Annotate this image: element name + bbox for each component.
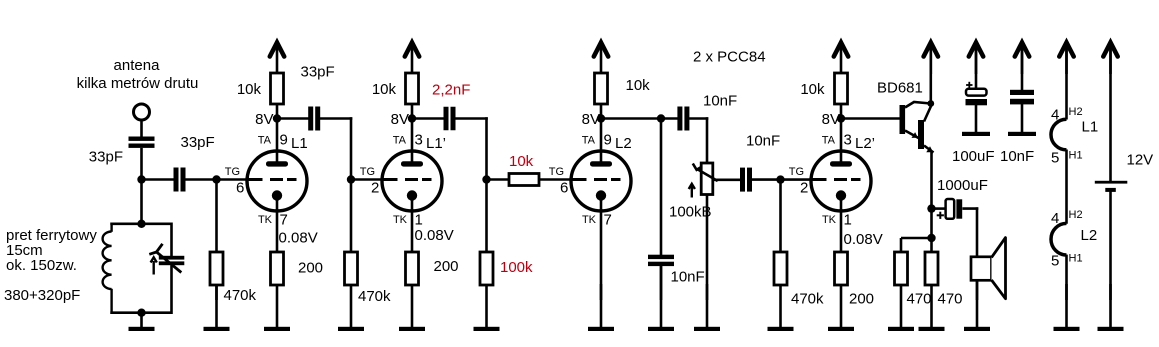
wire tank right branch lower	[170, 266, 173, 315]
wire cathode L1 down	[276, 209, 279, 253]
wire collector up	[929, 47, 932, 104]
wire corner down to junction	[485, 117, 488, 181]
node grid L2' junction	[776, 175, 784, 183]
triode L2p cathode	[836, 190, 846, 211]
wire arrow to 100uF	[975, 46, 978, 90]
svg-text:10k: 10k	[626, 77, 651, 94]
triode L2 anode lead	[600, 151, 603, 164]
wire tank bottom	[110, 311, 171, 314]
capacitor 1000uF (electrolytic)	[946, 199, 963, 219]
power arrow +12V stage 3	[594, 43, 608, 75]
svg-text:1000uF: 1000uF	[937, 177, 988, 194]
wire junction down to R 470k	[215, 180, 218, 254]
wire anode L1' to C 2,2nF	[412, 117, 444, 120]
svg-text:1: 1	[415, 212, 423, 229]
svg-text:TK: TK	[822, 214, 837, 226]
svg-text:100uF: 100uF	[952, 148, 995, 165]
ground (470k stage 2)	[338, 284, 364, 331]
svg-text:3: 3	[844, 132, 852, 149]
wire coupling cap to grid L1	[185, 178, 263, 181]
wire pot bottom to ground	[706, 194, 709, 301]
ground (470k stage 4)	[768, 284, 794, 331]
triode L1p cathode	[407, 190, 417, 211]
svg-text:L2: L2	[615, 135, 632, 152]
svg-text:5: 5	[1051, 253, 1059, 270]
ground (pot)	[694, 284, 720, 331]
wire emitter node to 1000uF	[932, 207, 947, 210]
svg-text:7: 7	[280, 212, 288, 229]
inductor L1 (winding)	[1051, 119, 1067, 150]
capacitor 2,2nF interstage 2-3	[444, 107, 456, 131]
ground (cathode L2)	[588, 284, 614, 331]
capacitor 100uF (electrolytic)	[966, 89, 988, 106]
capacitor 33pF grid coupling	[174, 168, 186, 192]
wire corner down to pot	[706, 117, 709, 164]
svg-text:470k: 470k	[358, 288, 391, 305]
svg-text:470: 470	[938, 291, 963, 308]
triode L1p anode plate	[401, 161, 423, 166]
wire junction to series 10k	[487, 178, 511, 181]
wire C to grid L2'	[752, 178, 827, 181]
ground (cathode stage 1)	[264, 284, 290, 331]
wire battery to ground	[1109, 192, 1112, 301]
resistor 470k (grid leak stage 1)	[210, 252, 223, 285]
svg-text:L1: L1	[291, 135, 308, 152]
svg-text:0.08V: 0.08V	[844, 231, 883, 248]
potentiometer small arrow	[689, 184, 695, 198]
power arrow +12V stage 2	[405, 43, 419, 75]
svg-text:200: 200	[434, 258, 459, 275]
wire 10nF to ground	[1021, 104, 1024, 132]
node: antenna/tank junction	[137, 175, 145, 183]
triode L2p anode lead	[840, 151, 843, 164]
triode L1 grid (dashed)	[247, 178, 297, 181]
battery 12V	[1095, 181, 1128, 192]
wire corner down to grid L1'	[350, 117, 353, 181]
svg-text:470k: 470k	[791, 291, 824, 308]
svg-text:100kB: 100kB	[669, 204, 712, 221]
power arrow +12V 100uF	[969, 43, 983, 75]
svg-text:TA: TA	[822, 135, 836, 147]
speaker	[971, 238, 1006, 299]
wire junction to right 470	[930, 238, 933, 253]
potentiometer 100kB body	[701, 163, 713, 195]
node grid L1' junction	[347, 175, 355, 183]
resistor 470 (left)	[895, 252, 908, 285]
wire junction down to 470k stage 2	[350, 180, 353, 254]
svg-text:10nF: 10nF	[671, 269, 705, 286]
wire arrow to battery	[1109, 46, 1112, 182]
wire 10k to anode L1'	[411, 103, 414, 164]
power arrow +12V stage 1	[270, 43, 284, 75]
ground (10nF shunt)	[648, 266, 674, 331]
label + (1000uF)	[937, 212, 944, 219]
svg-text:5: 5	[1051, 150, 1059, 167]
triode L2 cathode	[596, 190, 606, 211]
node 8V anode L1	[273, 114, 281, 122]
resistor 10k (anode stage 3)	[595, 73, 608, 104]
svg-text:10k: 10k	[372, 81, 397, 98]
wire junction down to 470k stage 4	[779, 180, 782, 253]
resistor 200 (cathode stage 2)	[406, 252, 419, 285]
capacitor 10nF (decoupling)	[1010, 90, 1034, 105]
wire C to corner	[320, 117, 352, 120]
wire node to C 10nF top	[661, 117, 678, 120]
svg-text:8V: 8V	[582, 111, 600, 128]
capacitor 33pF antenna series	[129, 137, 155, 148]
node: tank bottom junction	[137, 309, 145, 317]
svg-text:8V: 8V	[391, 111, 409, 128]
ground (speaker)	[964, 280, 990, 331]
svg-text:380+320pF: 380+320pF	[4, 287, 80, 304]
svg-text:0.08V: 0.08V	[415, 227, 454, 244]
node 8V anode L2	[597, 114, 605, 122]
wire arrow to coil L1	[1065, 46, 1068, 120]
wire 10k to anode L2'	[840, 103, 843, 164]
svg-text:3: 3	[415, 132, 423, 149]
svg-text:4: 4	[1051, 210, 1059, 227]
capacitor 10nF shunt	[648, 255, 674, 266]
power arrow +12V coil L1	[1059, 43, 1073, 75]
svg-text:10nF: 10nF	[703, 93, 737, 110]
svg-text:33pF: 33pF	[301, 64, 335, 81]
ground (tank)	[129, 313, 155, 331]
wire L1 to L2	[1065, 150, 1068, 224]
node 8V anode L2'	[837, 114, 845, 122]
svg-text:6: 6	[236, 180, 244, 197]
power arrow +12V 10nF	[1015, 43, 1029, 75]
ground (470 left)	[888, 284, 914, 331]
triode L1p grid (dashed)	[382, 178, 432, 181]
svg-text:470k: 470k	[224, 287, 257, 304]
svg-text:L1: L1	[1082, 119, 1099, 136]
svg-text:TK: TK	[258, 214, 273, 226]
svg-text:1: 1	[844, 212, 852, 229]
svg-text:470: 470	[907, 291, 932, 308]
node: grid L1 / 470k junction	[212, 175, 220, 183]
svg-text:L2: L2	[1081, 227, 1098, 244]
resistor 200 (cathode stage 4)	[835, 252, 848, 285]
wire pot wiper to C 10nF	[713, 179, 741, 182]
wire junction to left 470	[901, 238, 932, 253]
wire C1 to tank node	[140, 148, 143, 225]
wire arrow to 10nF	[1021, 46, 1024, 91]
ground (L2 coil)	[1054, 284, 1080, 331]
wire 10k to anode L1	[276, 103, 279, 164]
transistor BD681 darlington	[900, 102, 934, 153]
wire shunt node down to 10nF	[660, 119, 663, 256]
resistor 10k (anode stage 1)	[271, 73, 284, 104]
wire 10k to grid L2	[538, 178, 587, 181]
wire 100uF to ground	[975, 105, 978, 132]
wire C to corner above pot	[689, 117, 708, 120]
svg-text:TG: TG	[549, 166, 564, 178]
svg-text:TG: TG	[360, 166, 375, 178]
svg-text:TG: TG	[789, 166, 804, 178]
wire 10k to anode L2	[600, 103, 603, 164]
svg-text:TA: TA	[393, 135, 407, 147]
triode L1 anode plate	[266, 161, 288, 166]
svg-text:ok. 150zw.: ok. 150zw.	[6, 257, 77, 274]
svg-text:0.08V: 0.08V	[279, 230, 318, 247]
triode L2 envelope	[571, 151, 631, 211]
svg-text:33pF: 33pF	[89, 149, 123, 166]
svg-text:100k: 100k	[500, 259, 533, 276]
potentiometer wiper arrow	[693, 164, 718, 182]
svg-text:TG: TG	[225, 166, 240, 178]
wire L2 to ground	[1065, 255, 1068, 300]
wire cathode L2 to ground	[600, 209, 603, 300]
variable capacitor small arrow	[151, 257, 157, 274]
svg-text:8V: 8V	[255, 111, 273, 128]
node: tank top junction	[137, 220, 145, 228]
capacitor 10nF coupling to pot	[677, 107, 689, 131]
capacitor 10nF coupling to grid L2'	[740, 168, 752, 192]
svg-text:9: 9	[280, 132, 288, 149]
triode L1 envelope	[247, 151, 307, 211]
ground (470 right)	[919, 284, 945, 331]
resistor 10k (anode stage 4)	[835, 73, 848, 104]
svg-text:H2: H2	[1069, 106, 1083, 118]
triode L1 anode lead	[276, 151, 279, 164]
svg-text:33pF: 33pF	[181, 134, 215, 151]
power arrow +12V collector	[924, 43, 938, 75]
wire junction down to 100k	[485, 180, 488, 254]
resistor 470 (right)	[925, 252, 938, 285]
svg-text:7: 7	[604, 212, 612, 229]
svg-text:10nF: 10nF	[1000, 148, 1034, 165]
triode L2 anode plate	[590, 161, 612, 166]
triode L1p envelope	[382, 151, 442, 211]
svg-text:BD681: BD681	[877, 80, 923, 97]
node emitter / 1000uF	[927, 204, 935, 212]
svg-text:6: 6	[560, 180, 568, 197]
svg-text:H2: H2	[1069, 209, 1083, 221]
wire speaker to ground	[976, 280, 979, 300]
svg-text:10k: 10k	[237, 81, 262, 98]
wire tank top	[110, 223, 171, 226]
resistor 10k (anode stage 2)	[406, 73, 419, 104]
wire antenna to C1	[140, 120, 143, 137]
capacitor 33pF interstage 1-2	[308, 107, 320, 131]
ground (battery)	[1098, 284, 1124, 331]
wire tank node to coupling cap	[142, 178, 174, 181]
wire 470k to ground	[215, 284, 218, 300]
ground (cathode stage 4)	[828, 284, 854, 331]
svg-text:kilka metrów drutu: kilka metrów drutu	[77, 75, 199, 92]
wire emitter down	[930, 152, 933, 240]
ground (100k)	[474, 284, 500, 331]
svg-text:10k: 10k	[509, 153, 534, 170]
triode L1 cathode	[272, 190, 282, 211]
svg-text:2,2nF: 2,2nF	[432, 82, 470, 99]
node 8V anode L1'	[408, 114, 416, 122]
wire 1000uF to speaker	[962, 207, 978, 258]
power arrow +12V battery	[1103, 43, 1117, 75]
svg-text:200: 200	[849, 291, 874, 308]
svg-text:TK: TK	[582, 214, 597, 226]
svg-text:TA: TA	[582, 135, 596, 147]
node junction 10k/100k	[482, 175, 490, 183]
wire anode L2 to node	[601, 117, 662, 120]
label + (100uF)	[966, 82, 972, 88]
triode L2p grid (dashed)	[811, 178, 861, 181]
svg-text:4: 4	[1051, 107, 1059, 124]
svg-text:L2’: L2’	[855, 135, 875, 152]
triode L1p anode lead	[411, 151, 414, 164]
svg-text:200: 200	[298, 260, 323, 277]
resistor 100k (grid leak stage 3)	[480, 252, 493, 285]
svg-text:2: 2	[800, 180, 808, 197]
wire cathode L1' down	[411, 209, 414, 253]
ground (10nF decoupling)	[1008, 132, 1036, 136]
svg-text:H1: H1	[1069, 150, 1083, 162]
node anode L2 / 10nF shunt	[657, 114, 665, 122]
inductor ferrite coil (tank)	[103, 223, 112, 315]
svg-text:10k: 10k	[800, 81, 825, 98]
node collector BD681	[927, 100, 934, 107]
svg-text:antena: antena	[114, 57, 161, 74]
wire tank right branch upper	[170, 223, 173, 257]
svg-text:10nF: 10nF	[746, 133, 780, 150]
svg-text:8V: 8V	[822, 111, 840, 128]
svg-text:TA: TA	[258, 135, 272, 147]
svg-text:9: 9	[604, 132, 612, 149]
wire C to corner	[455, 117, 488, 120]
inductor L2 (winding)	[1051, 223, 1067, 255]
wire cathode L2' down	[840, 209, 843, 253]
power arrow +12V stage 4	[834, 43, 848, 75]
svg-text:H1: H1	[1069, 253, 1083, 265]
svg-text:L1’: L1’	[426, 135, 446, 152]
svg-text:TK: TK	[393, 214, 408, 226]
wire shunt 10nF to ground	[660, 266, 663, 300]
triode L2p anode plate	[830, 161, 852, 166]
svg-text:2 x PCC84: 2 x PCC84	[693, 49, 766, 66]
ground (100uF)	[962, 132, 990, 136]
variable capacitor 380+320pF plates	[159, 256, 185, 265]
wire anode L2' to base BD681	[841, 117, 900, 120]
ground (470k stage 1)	[204, 284, 230, 331]
wire anode L1 to C 33pF	[277, 117, 309, 120]
node emitter resistors junction	[927, 234, 935, 242]
resistor 200 (cathode stage 1)	[271, 252, 284, 285]
svg-text:12V: 12V	[1127, 152, 1154, 169]
triode L2p envelope	[811, 151, 871, 211]
ground (cathode stage 2)	[399, 284, 425, 331]
resistor 10k series (horizontal)	[509, 174, 539, 186]
resistor 470k (grid leak stage 4)	[774, 252, 787, 285]
wire junction to grid L1'	[351, 178, 398, 181]
resistor 470k (grid leak stage 2)	[345, 252, 358, 285]
svg-text:2: 2	[371, 180, 379, 197]
variable capacitor adjust arrow	[149, 244, 181, 273]
antenna terminal	[134, 104, 150, 120]
triode L2 grid (dashed)	[571, 178, 621, 181]
